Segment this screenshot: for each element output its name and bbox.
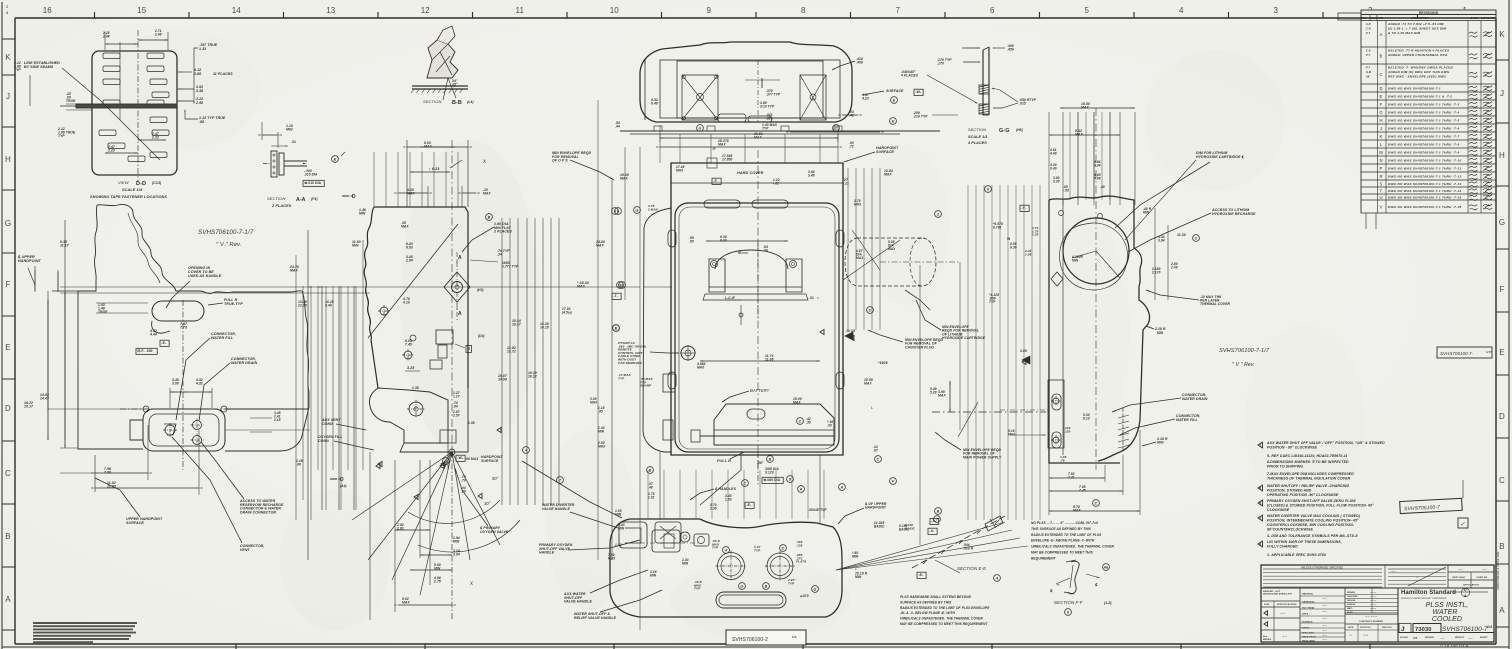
svg-text:MAIN POWER SUPPLY: MAIN POWER SUPPLY [963,455,1002,459]
svg-text:ENVELOPE -E- ABOVE PLANE -T- W: ENVELOPE -E- ABOVE PLANE -T- WITH [1031,539,1095,543]
contract number cell [1345,612,1398,614]
svg-text:∼∼∼: ∼∼∼ [1370,591,1377,594]
svg-text:∼∼∼: ∼∼∼ [1370,595,1377,598]
svg-text:∼∼: ∼∼ [1458,569,1463,572]
svg-text:4: 4 [995,577,998,581]
svg-text:3.38: 3.38 [196,89,203,93]
svg-text:MAX: MAX [598,444,606,448]
svg-text:F: F [1500,285,1505,294]
view2 internal small details [380,307,388,315]
svg-text:HARDPOINT: HARDPOINT [865,506,887,510]
svg-text:MIN: MIN [1072,258,1079,262]
svg-text:(2) 1.58-1. + 7 (B), SHEET DES: (2) 1.58-1. + 7 (B), SHEET DES DIM [1388,27,1446,31]
svg-text:HARDPOINT: HARDPOINT [18,259,41,263]
scattered circled refs [612,208,619,215]
svg-text:C-18-100-D4 R: C-18-100-D4 R [1440,644,1468,649]
svg-text:PROD ITEM: PROD ITEM [1302,641,1315,643]
svg-text:2.49: 2.49 [1170,265,1178,269]
svg-text:C: C [835,127,838,131]
svg-text:3.04: 3.04 [453,553,460,557]
arch center lines [757,240,759,320]
svg-text:DWG NO WAS SVHS706100-7-1 THRU: DWG NO WAS SVHS706100-7-1 THRU -7-14 [1388,189,1461,193]
svg-text:.60 MAX: .60 MAX [465,457,479,461]
svg-text:PLSS INSTL,: PLSS INSTL, [1426,602,1469,609]
svg-text:CONN: CONN [322,422,333,426]
svg-text:2.23: 2.23 [151,136,159,140]
svg-text:11: 11 [515,6,524,15]
svg-text:2 PLACES: 2 PLACES [493,230,512,234]
pod connectors [165,425,175,435]
main view top strip lines [671,182,843,184]
svg-text:MIN: MIN [1157,441,1164,445]
svg-text:∼∼ ∼∼∼: ∼∼ ∼∼∼ [1365,615,1378,618]
svg-text:SURFACE: SURFACE [876,150,894,154]
svg-text:SVHS706100-7-: SVHS706100-7- [1440,351,1474,356]
svg-text:.015: .015 [1019,102,1026,106]
view D-D tape fastener panel [92,51,177,175]
svg-text:MAX: MAX [290,269,298,273]
svg-text:MAX: MAX [938,394,946,398]
svg-text:DWG NO WAS SVHS706100-7-1 THRU: DWG NO WAS SVHS706100-7-1 THRU -7-10 [1388,158,1461,162]
svg-text:8: 8 [1067,611,1069,615]
svg-text:1.777 TYP: 1.777 TYP [502,265,519,269]
left view top extension lines [34,270,36,292]
svg-text:⌀.870: ⌀.870 [800,594,809,598]
svg-text:G: G [741,585,744,589]
left view bottom dims [147,425,149,480]
svg-text:BY SIDE SEAMS: BY SIDE SEAMS [24,65,54,69]
svg-text:TRUE: TRUE [66,99,76,103]
svg-text:(H3): (H3) [477,288,484,292]
svg-text:(D4): (D4) [478,334,485,338]
svg-text:9- REF GAEC LID340-11120, HDA0: 9- REF GAEC LID340-11120, HDA02-7E9670-1… [1267,454,1348,458]
long horizontal construction line across left area [60,286,640,288]
svg-text:.44: .44 [615,125,620,129]
svg-text:AREAS: AREAS [1263,638,1272,641]
svg-text:FSCM NO: FSCM NO [1360,627,1371,629]
svg-text:3.48: 3.48 [808,173,815,177]
svg-text:HYDROXIDE CARTRIDGE ℄: HYDROXIDE CARTRIDGE ℄ [1196,155,1244,159]
svg-text:3.40: 3.40 [1050,166,1057,170]
bottom view circles [718,553,745,580]
svg-text:DELETED -7- WAS/REF DWGS PLACE: DELETED -7- WAS/REF DWGS PLACED [1388,66,1454,70]
right view inner verticals [1069,112,1071,200]
svg-text:.520 R: .520 R [963,546,974,550]
svg-text:ADDED: UPPER COUNTERBAL PKG: ADDED: UPPER COUNTERBAL PKG [1387,53,1448,57]
svg-text:TYP: TYP [618,376,625,380]
svg-text:MAX: MAX [793,401,801,405]
bottom view left outside panel [619,522,647,548]
view2 bottom angle fan [449,449,455,455]
svg-text:WATER DRAIN: WATER DRAIN [1182,397,1208,401]
svg-text:SYM: SYM [1264,604,1269,606]
svg-text:TYP: TYP [14,68,21,72]
svg-text:.450: .450 [1007,48,1014,52]
svg-text:VALVE HANDLE: VALVE HANDLE [564,600,593,604]
svg-text:SVHS706100-7-1/7: SVHS706100-7-1/7 [1219,348,1270,354]
svg-text:DWG NO WAS SVHS706100-7-1 THRU: DWG NO WAS SVHS706100-7-1 THRU -7-15 [1388,195,1461,199]
svg-text:B: B [769,458,772,462]
svg-text:C: C [877,458,880,462]
section B-B sketch [427,40,458,78]
svg-text:P-7: P-7 [1366,54,1371,57]
svg-text:∼∼: ∼∼ [1468,637,1473,640]
svg-text:D: D [352,194,356,200]
svg-text:& TO 3.26 MAX DIM: & TO 3.26 MAX DIM [1388,31,1421,35]
svg-text:SYM: SYM [1361,17,1366,20]
svg-text:WATER FILL: WATER FILL [1176,418,1198,422]
svg-text:F: F [1380,102,1383,107]
svg-text:90°: 90° [492,476,499,481]
svg-text:B: B [1380,54,1383,59]
svg-text:FULL R: FULL R [717,459,731,463]
svg-text:FULLY CHARGED: FULLY CHARGED [1267,545,1298,549]
section E-E sketch [912,516,1005,568]
svg-text:MAX: MAX [1075,133,1083,137]
svg-text:∼∼: ∼∼ [1391,570,1396,573]
svg-text:MIN: MIN [286,128,293,132]
misc circled refs scattered [935,508,942,515]
D-D slats [103,53,120,59]
svg-text:1.33: 1.33 [199,47,206,51]
svg-text:NO PLSS —T— — 6° ——— CONL 50°: NO PLSS —T— — 6° ——— CONL 50°-7×0 [1031,521,1098,525]
application cells [1448,571,1494,573]
svg-text:C: C [782,547,785,551]
right view outline [1049,196,1150,463]
svg-text:SVHS706100-7: SVHS706100-7 [1442,626,1488,633]
view2 B-detail [436,330,453,344]
svg-text:(CLOSED) & STOWED POSITION, FU: (CLOSED) & STOWED POSITION, FULL FLOW PO… [1267,504,1374,508]
svg-text:(H8): (H8) [1016,128,1023,132]
view2 bottom tabs [400,388,468,452]
svg-text:USED ON: USED ON [1477,577,1488,579]
svg-text:PRIOR TO SHIPPING: PRIOR TO SHIPPING [1267,465,1303,469]
center top view outline [640,42,852,122]
svg-text:4.23: 4.23 [861,97,869,101]
svg-text:ADDED .74 TO 7.532 +7.5-.63 DI: ADDED .74 TO 7.532 +7.5-.63 DIM [1387,22,1444,26]
svg-text:SECTION: SECTION [423,99,441,104]
svg-text:7.41: 7.41 [1068,475,1075,479]
svg-text:MIN: MIN [618,526,625,530]
svg-text:DESIGN: DESIGN [1347,600,1356,602]
svg-text:DWG NO WAS SVHS706100-7-1 THRU: DWG NO WAS SVHS706100-7-1 THRU -7-3 [1388,102,1459,106]
svg-text:A: A [840,486,844,490]
svg-text:APPROVED: APPROVED [1481,17,1495,20]
svg-text:REF DWG - ENVELOPE (SEE) DWG: REF DWG - ENVELOPE (SEE) DWG [1388,75,1446,79]
svg-text:-X-: -X- [929,529,934,533]
svg-text:9: 9 [706,6,711,15]
svg-text:E: E [5,343,10,352]
svg-text:POSITION, STOWED AND: POSITION, STOWED AND [1267,489,1312,493]
svg-text:SIZE: SIZE [1348,627,1354,629]
svg-text:6.63: 6.63 [406,246,413,250]
svg-text:8: 8 [789,478,791,482]
svg-text:4 PLACES: 4 PLACES [967,141,987,145]
stamp box SVHS706100 right middle [1437,347,1492,358]
svg-text:.170: .170 [937,62,944,66]
svg-text:DWG NO WAS SVHS706100-7-1 THRU: DWG NO WAS SVHS706100-7-1 THRU -7-4 [1388,110,1459,114]
svg-text:TRUE-TYP: TRUE-TYP [224,302,243,306]
right side lithium cylinder envelope [845,238,936,286]
svg-text:-W- & -X- BELOW PLANE -E- WITH: -W- & -X- BELOW PLANE -E- WITH [900,611,956,615]
svg-text:" V " Rev.: " V " Rev. [216,242,241,248]
svg-text:SHARP: SHARP [640,384,652,388]
svg-text:A: A [799,488,803,492]
svg-text:VENT: VENT [240,548,250,552]
svg-text:POSITION - 90° CLOCKWISE: POSITION - 90° CLOCKWISE [1267,446,1317,450]
svg-text:RADIUS EXTENDED TO THE LIMIT O: RADIUS EXTENDED TO THE LIMIT OF PLSS ENV… [900,606,990,610]
svg-text:.315 DIA: .315 DIA [304,172,318,176]
svg-text:RADIUS EXTENDED TO THE LIMIT O: RADIUS EXTENDED TO THE LIMIT OF PLSS [1031,533,1102,537]
svg-text:DESCRIPTION: DESCRIPTION [1411,17,1429,20]
svg-text:DESIGN: DESIGN [1425,637,1434,639]
svg-text:C: C [869,309,872,313]
svg-text:73030: 73030 [1415,627,1432,633]
svg-text:3.08: 3.08 [172,382,179,386]
svg-text:AREA: AREA [1302,613,1309,616]
svg-text:∼∼: ∼∼ [1322,629,1327,632]
svg-text:.50: .50 [763,249,768,253]
svg-text:3: 3 [1273,6,1278,15]
svg-text:6.48: 6.48 [651,102,658,106]
svg-text:1/4: 1/4 [1487,625,1492,629]
svg-text:2.36: 2.36 [709,506,717,510]
svg-text:K: K [1499,30,1505,39]
svg-text:1/4: 1/4 [792,635,797,639]
center top baseline [620,130,940,132]
svg-text:A-A: A-A [296,197,306,203]
svg-text:13.72: 13.72 [507,350,516,354]
svg-text:TYP: TYP [788,581,795,585]
svg-text:J: J [1380,126,1382,131]
svg-text:.38: .38 [806,420,811,424]
long horizontal extension left [48,408,143,410]
svg-text:THICKNESS OF THERMAL INSULATIO: THICKNESS OF THERMAL INSULATION COVER [1267,477,1351,481]
svg-text:REQUIREMENT: REQUIREMENT [1031,556,1057,560]
svg-text:B: B [1499,542,1504,551]
svg-text:1- APPLICABLE SPEC SVHS 4700: 1- APPLICABLE SPEC SVHS 4700 [1267,553,1326,557]
svg-text:∼∼∼: ∼∼∼ [1370,607,1377,610]
svg-text:MAX: MAX [676,168,684,172]
svg-text:(4.5ω): (4.5ω) [562,310,572,314]
svg-text:DWG NO WAS SVHS706100-7-1 THRU: DWG NO WAS SVHS706100-7-1 THRU -7-11 [1388,166,1461,170]
svg-text:C: C [799,420,802,424]
svg-text:LIG WITHIN 100R OF THESE DIMEN: LIG WITHIN 100R OF THESE DIMENSIONS, [1267,540,1342,544]
svg-text:4.49: 4.49 [1049,151,1057,155]
svg-text:.64: .64 [453,404,458,408]
svg-text:.88: .88 [199,120,204,124]
svg-text:2.57: 2.57 [452,413,460,417]
svg-text:TYP: TYP [989,300,996,304]
svg-text:8.791: 8.791 [993,225,1002,229]
main view left panel details [681,346,695,360]
view2 diagonal seam [368,224,458,338]
svg-text:E: E [1499,348,1504,357]
svg-text:DWG NO WAS SVHS706100-7-1 & -7: DWG NO WAS SVHS706100-7-1 & -7-2 [1388,94,1452,98]
svg-text:DIVISION OF UNITED AIRCRAFT CO: DIVISION OF UNITED AIRCRAFT CORPORATION [1401,597,1447,600]
svg-text:V: V [1380,205,1383,210]
G-G hatched pads [979,85,989,94]
svg-text:7: 7 [895,6,900,15]
svg-text:MATL: MATL [1347,607,1353,610]
svg-text:B-B: B-B [452,100,462,106]
svg-text:2: 2 [1258,443,1261,447]
svg-text:-.62: -.62 [773,181,779,185]
svg-text:16: 16 [43,6,53,15]
svg-text:G: G [636,209,639,213]
svg-text:C: C [1499,476,1505,485]
svg-text:C-D: C-D [1366,28,1371,31]
svg-text:MAX: MAX [577,285,586,289]
svg-text:WATER DIVERTER VALVE MAX COOLI: WATER DIVERTER VALVE MAX COOLING ( STOWE… [1267,514,1361,518]
svg-text:7.88: 7.88 [104,471,111,475]
svg-text:B: B [937,510,940,514]
svg-text:SECTION E-E: SECTION E-E [957,566,986,571]
svg-text:DWG NO WAS SVHS706100-7-1 THRU: DWG NO WAS SVHS706100-7-1 THRU -7-5 [1388,118,1459,122]
svg-text:MAX: MAX [697,365,705,369]
svg-text:∼∼: ∼∼ [1363,633,1369,637]
svg-text:SCALE 1/4: SCALE 1/4 [122,188,143,192]
bottom view handle details [655,522,681,543]
svg-text:-.65: -.65 [1063,188,1069,192]
drawing border frame [15,17,1496,19]
svg-text:CONN: CONN [318,439,329,443]
svg-text:D: D [1379,86,1382,91]
svg-text:4a: 4a [1103,566,1108,570]
main view edge ovals [668,372,676,389]
bottom view fan leaders to note [836,522,1005,570]
svg-text:∼∼: ∼∼ [1322,617,1327,620]
svg-text:MAX: MAX [596,244,604,248]
svg-text:.42: .42 [849,114,854,118]
svg-text:.76: .76 [1060,458,1065,462]
svg-text:J: J [6,92,10,101]
svg-text:∼∼: ∼∼ [1280,611,1285,615]
svg-text:D: D [340,477,344,483]
main view battery [714,404,834,445]
svg-text:G: G [1379,110,1382,115]
svg-text:TYP: TYP [58,134,65,138]
center top view small details [718,114,746,122]
svg-text:.31: .31 [809,296,814,300]
center top view left x-bracket [682,75,718,120]
svg-text:1.17: 1.17 [453,394,460,398]
left view top edge and handle slot [78,290,302,292]
svg-text:3.30: 3.30 [1053,179,1060,183]
main view right dim verticals [847,168,849,330]
svg-text:DWG NO WAS SVHS706100-7-1 THRU: DWG NO WAS SVHS706100-7-1 THRU -7-8 [1388,142,1459,146]
svg-text:R: R [1379,174,1382,179]
svg-text:CONTRACT NUMBER: CONTRACT NUMBER [1359,620,1383,623]
svg-text:MIN: MIN [1157,331,1164,335]
svg-text:WATER SHUTOFF / RELIEF VALVE -: WATER SHUTOFF / RELIEF VALVE -CHARGING [1267,484,1350,488]
svg-text:♁ 6.23: ♁ 6.23 [428,167,439,171]
svg-text:∼: ∼ [1349,633,1352,637]
svg-text:3- DIM AND TOLERANCE SYMBOLS P: 3- DIM AND TOLERANCE SYMBOLS PER MIL-STD… [1267,534,1358,538]
svg-text:.135: .135 [796,543,803,547]
section G-G thin wall section [982,50,984,115]
svg-text:∼∼: ∼∼ [1322,638,1327,641]
svg-text:H: H [5,155,11,164]
general notes list [1258,442,1263,448]
svg-text:-Y-: -Y- [1021,206,1026,210]
right view big circle lithium [1063,218,1129,284]
svg-text:BASIC: BASIC [905,526,916,530]
svg-text:PLSS HARDWARE SHALL EXTEND BEY: PLSS HARDWARE SHALL EXTEND BEYOND [900,595,972,599]
center top view right x-bracket [800,75,826,120]
svg-text:TYP: TYP [754,548,761,552]
svg-text:AUX WATER SHUT OFF VALVE -“OFF: AUX WATER SHUT OFF VALVE -“OFF” POSITION… [1266,441,1385,445]
svg-text:4: 4 [1258,542,1261,546]
svg-text:5: 5 [1084,6,1089,15]
svg-text:12: 12 [421,6,431,15]
svg-text:ALL: ALL [1263,635,1268,638]
svg-text:14.18: 14.18 [540,326,549,330]
svg-text:2.170: 2.170 [1151,270,1161,274]
svg-text:.95: .95 [598,409,603,413]
svg-text:SHOWING TAPE FASTENER LOCAT: SHOWING TAPE FASTENER LOCATIONS [90,195,167,199]
svg-text:.70: .70 [461,478,466,482]
svg-text:D: D [5,404,11,413]
right view diamond [1051,272,1063,286]
svg-text:A: A [1464,594,1467,598]
svg-text:THERMAL COVER: THERMAL COVER [1200,302,1231,306]
svg-text:MAX: MAX [590,400,598,404]
svg-text:SCALE: SCALE [1400,636,1408,639]
svg-text:MAX: MAX [884,173,892,177]
stamp box SVHS706100 lower right [1400,498,1463,513]
svg-text:MIN: MIN [855,575,862,579]
svg-text:J: J [1401,626,1405,633]
svg-text:3.80: 3.80 [1020,349,1027,353]
svg-text:MAX: MAX [718,143,726,147]
svg-text:30°: 30° [484,501,491,506]
svg-text:12.79: 12.79 [298,304,307,308]
left view outline upper hardpoint [78,204,302,449]
svg-text:∼∼: ∼∼ [1322,624,1327,627]
svg-text:2.75: 2.75 [433,580,441,584]
title block outer [1261,565,1494,642]
svg-text:.48: .48 [1100,185,1105,189]
svg-text:UMBILICALS UNFASTENED. THE THE: UMBILICALS UNFASTENED. THE THERMAL COVER [900,617,984,621]
svg-text:TYP: TYP [762,126,769,130]
dash-dot center axes [757,150,759,470]
svg-text:-W-: -W- [915,90,921,94]
svg-text:2.48: 2.48 [154,32,162,36]
top zone ticks and numbers [94,12,96,18]
svg-text:7.45: 7.45 [1079,488,1086,492]
svg-text:LTR: LTR [1379,17,1384,20]
svg-text:∼∼: ∼∼ [1322,634,1327,637]
svg-text:WATER DRAIN: WATER DRAIN [231,361,257,365]
svg-text:.120: .120 [1064,429,1071,433]
right zone ticks and letters [1496,59,1509,61]
svg-text:4.10: 4.10 [402,301,410,305]
svg-text:MAX: MAX [1081,106,1089,110]
svg-text:DELETED .77 R ADDITION 4 PLACE: DELETED .77 R ADDITION 4 PLACES [1388,49,1449,53]
arch assembly [715,250,788,269]
hard cover top tabs [704,200,740,208]
svg-text:OF O P S: OF O P S [552,159,568,163]
svg-text:1.61: 1.61 [648,495,655,499]
svg-text:3.88: 3.88 [194,72,201,76]
svg-text:G: G [699,127,702,131]
svg-text:SURFACE: SURFACE [481,459,499,463]
svg-text:B: B [765,585,768,589]
svg-text:HYDROXIDE RECHARGE: HYDROXIDE RECHARGE [1212,212,1256,216]
svg-text:8: 8 [801,6,806,15]
sign-off column [1344,588,1346,615]
